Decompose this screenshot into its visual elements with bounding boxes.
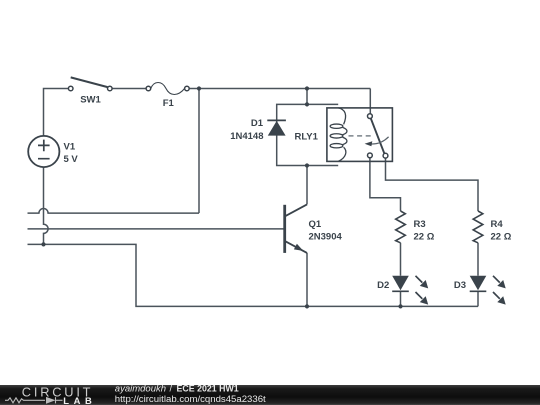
svg-text:RLY1: RLY1 (295, 131, 319, 142)
svg-text:http://circuitlab.com/cqnds45a: http://circuitlab.com/cqnds45a2336t (115, 394, 266, 405)
svg-text:5 V: 5 V (64, 154, 79, 165)
svg-text:D3: D3 (454, 280, 466, 291)
svg-text:F1: F1 (163, 98, 175, 109)
svg-text:22 Ω: 22 Ω (491, 231, 512, 242)
svg-text:D2: D2 (377, 280, 389, 291)
svg-text:SW1: SW1 (80, 95, 101, 106)
svg-text:1N4148: 1N4148 (230, 131, 263, 142)
svg-text:22 Ω: 22 Ω (414, 231, 435, 242)
svg-text:D1: D1 (251, 118, 264, 129)
svg-text:V1: V1 (64, 141, 76, 152)
svg-text:Q1: Q1 (309, 219, 322, 230)
svg-text:LAB: LAB (63, 395, 96, 405)
svg-text:R4: R4 (491, 219, 504, 230)
svg-text:R3: R3 (414, 219, 426, 230)
svg-text:2N3904: 2N3904 (309, 231, 343, 242)
